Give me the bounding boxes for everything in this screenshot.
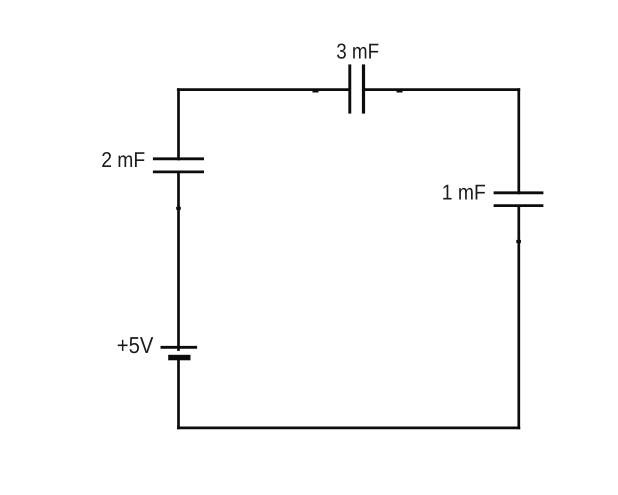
wire top-left segment <box>177 88 349 91</box>
svg-text:+5V: +5V <box>117 332 154 358</box>
wire right upper segment <box>517 88 520 194</box>
wire left lower segment <box>177 358 180 430</box>
wire right lower segment <box>517 206 520 430</box>
node junction on right wire <box>516 240 521 243</box>
capacitor C1 bottom plate <box>494 204 544 207</box>
node junction on top-left wire <box>313 90 319 92</box>
svg-text:2 mF: 2 mF <box>101 148 145 172</box>
capacitor C3 value label 3 mF <box>336 40 379 64</box>
battery B1 value label +5V <box>117 332 154 358</box>
node junction on left wire <box>176 207 181 210</box>
capacitor C1 value label 1 mF <box>442 181 486 205</box>
capacitor C1 top plate <box>494 191 544 194</box>
capacitor C3 right plate <box>362 64 365 113</box>
battery B1 positive plate <box>161 346 198 349</box>
wire bottom segment <box>177 427 520 430</box>
wire left upper segment <box>177 88 180 160</box>
capacitor C3 left plate <box>348 64 351 113</box>
wire top-right segment <box>365 88 520 91</box>
capacitor C2 top plate <box>153 157 204 160</box>
svg-text:1 mF: 1 mF <box>442 181 486 205</box>
wire left middle segment <box>177 172 180 351</box>
capacitor C2 value label 2 mF <box>101 148 145 172</box>
node junction on top-right wire <box>397 90 403 92</box>
capacitor C2 bottom plate <box>153 170 204 173</box>
svg-text:3 mF: 3 mF <box>336 40 379 64</box>
battery B1 negative plate <box>168 355 190 361</box>
